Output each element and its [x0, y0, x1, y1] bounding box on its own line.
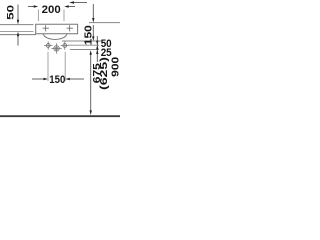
tap hole cross right [69, 25, 71, 31]
dimension 675 (625): dim line floor to drain [90, 55, 92, 111]
svg-text:200: 200 [42, 4, 61, 16]
svg-text:50: 50 [6, 5, 17, 20]
dimension 150 right rear: dim line with arrows [92, 4, 94, 19]
wire: basin bottom edge extension to left image edge [0, 34, 36, 36]
supply drop line left [47, 52, 49, 81]
dimension 50/25 right: dim line [96, 36, 98, 62]
wire: left extension line top (rim top level) [0, 24, 34, 26]
wire: left extension line middle [0, 31, 34, 33]
dimension 200: extension lines [37, 10, 39, 22]
dimension 200: left arrow [28, 6, 35, 8]
right reference line: drain level [70, 49, 99, 51]
right reference line: bowl bottom level [62, 40, 102, 42]
svg-text:150: 150 [83, 25, 95, 45]
basin body rectangle (tap deck, front view) [36, 24, 78, 34]
right reference line: supply level [69, 44, 100, 46]
basin bowl arc below deck [43, 34, 67, 40]
right reference line: rim rear top level [89, 22, 120, 24]
supply connection crosshair left [46, 44, 50, 48]
dimension 150 bottom: right arrow [69, 78, 85, 80]
tap hole cross left [45, 25, 47, 31]
dimension 200: right arrow [68, 6, 76, 8]
background [0, 0, 120, 120]
supply connection crosshair right [63, 44, 67, 48]
floor line [0, 115, 120, 117]
svg-text:(625): (625) [98, 57, 110, 90]
svg-text:900: 900 [110, 57, 120, 77]
leader arrow top (points left) [71, 2, 88, 4]
dimension 150 bottom: left arrow [32, 78, 46, 80]
dimension 50 top-left: dim line with arrows [17, 5, 19, 21]
drain outlet crosshair center [54, 46, 59, 51]
supply drop line right [64, 52, 66, 81]
svg-text:150: 150 [49, 74, 65, 86]
